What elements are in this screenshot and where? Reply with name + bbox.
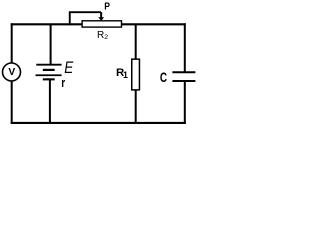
svg-text:2: 2 [104, 34, 108, 41]
battery plate short 2 [43, 78, 55, 80]
capacitor C top plate [172, 71, 195, 73]
wire top-left segment [11, 23, 83, 25]
wire top-right segment [122, 23, 186, 25]
wire battery top stub [50, 24, 52, 65]
svg-text:1: 1 [123, 70, 128, 80]
wire wiper branch [70, 12, 101, 25]
wire wiper stem [100, 12, 102, 18]
battery plate long 2 [36, 74, 62, 76]
wire R1 top stub [135, 24, 137, 60]
svg-text:R: R [97, 30, 104, 41]
wire bottom [11, 122, 186, 124]
potentiometer R2 body [82, 21, 121, 27]
svg-text:r: r [61, 77, 65, 90]
battery plate long 1 [36, 64, 61, 66]
svg-text:V: V [8, 67, 15, 78]
svg-text:C: C [160, 69, 167, 85]
wire left lower [11, 81, 13, 124]
voltmeter circle [3, 63, 21, 81]
wire right upper [184, 23, 186, 72]
wire R1 bottom stub [135, 91, 137, 124]
capacitor C bottom plate [172, 80, 195, 82]
wire right lower [184, 81, 186, 124]
svg-text:E: E [64, 59, 74, 78]
svg-text:P: P [104, 1, 110, 12]
battery plate short 1 [43, 69, 55, 71]
wire left upper [11, 23, 13, 63]
wire battery bottom stub [49, 79, 51, 123]
wiper arrowhead [98, 17, 104, 21]
resistor R1 body [132, 59, 140, 90]
